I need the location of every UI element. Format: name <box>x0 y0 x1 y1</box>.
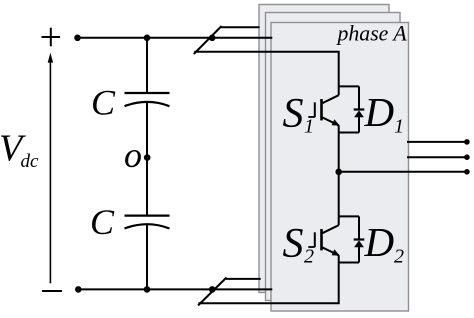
svg-text:C: C <box>90 202 115 242</box>
label Vdc <box>0 128 39 173</box>
svg-text:D: D <box>364 89 395 135</box>
svg-text:1: 1 <box>304 116 314 138</box>
output terminal dot 1 <box>464 139 470 145</box>
Vdc arrow <box>48 53 53 284</box>
wire output line 3 (phase A) <box>339 171 467 173</box>
node o dot <box>144 154 151 161</box>
wire top bundle slash <box>194 26 222 54</box>
phase box C (back) <box>259 5 389 293</box>
junction dot bottom bundle <box>209 286 216 293</box>
svg-text:S: S <box>283 91 304 137</box>
junction dot top bundle <box>209 35 216 42</box>
wire bottom bundle slash <box>198 278 227 306</box>
transistor S2 <box>308 172 339 256</box>
wire output line 1 <box>407 141 467 143</box>
label D1 <box>364 89 405 137</box>
capacitor C upper <box>125 38 170 158</box>
wire bottom bundle line A <box>226 278 261 280</box>
wire top bundle line A <box>221 26 260 28</box>
svg-text:C: C <box>91 82 116 122</box>
wire bottom bundle line C from S2 emitter <box>198 255 338 303</box>
node + terminal dot <box>74 35 81 42</box>
wire top bundle line C to S1 collector <box>194 52 339 95</box>
capacitor C lower <box>125 158 170 290</box>
svg-text:S: S <box>283 221 304 267</box>
svg-text:2: 2 <box>394 245 404 267</box>
phase box B (middle) <box>266 13 401 301</box>
negative terminal - <box>42 290 62 292</box>
junction dot bottom capacitor <box>144 286 151 293</box>
output terminal dot 3 <box>464 169 470 175</box>
diode D2 <box>339 216 365 262</box>
label D2 <box>364 219 405 267</box>
positive terminal + <box>42 28 61 47</box>
svg-text:phase A: phase A <box>336 21 408 45</box>
output terminal dot 2 <box>464 154 470 160</box>
wire bottom DC bus <box>78 288 272 290</box>
node - terminal dot <box>75 286 82 293</box>
svg-text:o: o <box>124 135 142 175</box>
wire top DC bus <box>77 37 272 39</box>
label S2 <box>283 221 315 268</box>
label S1 <box>283 91 315 138</box>
phase box A (front) <box>271 23 409 312</box>
svg-text:D: D <box>364 219 395 265</box>
svg-text:1: 1 <box>394 115 404 137</box>
junction dot top capacitor <box>144 35 151 42</box>
wire output line 2 <box>407 156 467 158</box>
svg-text:2: 2 <box>304 246 314 268</box>
diode D1 <box>339 86 365 132</box>
transistor S1 <box>308 95 339 172</box>
svg-text:dc: dc <box>21 151 40 172</box>
junction dot phase output <box>335 169 342 176</box>
